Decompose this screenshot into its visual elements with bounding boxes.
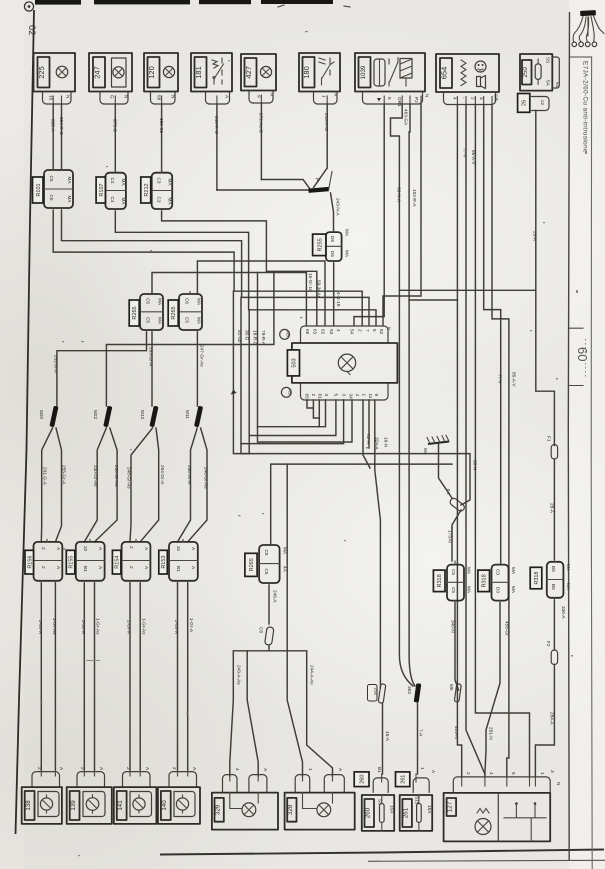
wire 654 pin1 to unit 127 — [466, 105, 485, 777]
svg-text:4-N-18: 4-N-18 — [336, 292, 341, 307]
fuse F2 — [551, 650, 557, 665]
wire 243-N-A — [331, 193, 334, 232]
wire 246-A — [268, 586, 270, 625]
wire node 9 of 503 to splice 292 and fusebox 260 — [375, 400, 381, 688]
wire bus feed lamp 328 — [287, 464, 302, 776]
svg-text:MA: MA — [158, 298, 163, 306]
svg-text:2: 2 — [466, 772, 471, 775]
wire 1039 pin1 to node 54 of unit 503 — [354, 104, 384, 326]
frame right border line — [568, 12, 569, 860]
svg-text:1: 1 — [420, 767, 425, 770]
connector R101 — [44, 167, 73, 211]
svg-text:463-GA: 463-GA — [404, 109, 409, 126]
svg-text:R255: R255 — [317, 238, 323, 251]
connector bracket under 654 — [444, 92, 496, 105]
svg-text:R155: R155 — [69, 556, 75, 569]
svg-text:2: 2 — [358, 329, 363, 332]
wire 30-G — [240, 297, 242, 443]
svg-text:1: 1 — [322, 95, 327, 98]
wire 340-N — [455, 603, 459, 690]
control unit 503 — [292, 326, 398, 400]
svg-text:405-N: 405-N — [454, 726, 459, 739]
svg-text:1-Gr-As: 1-Gr-As — [96, 618, 101, 635]
svg-text:2: 2 — [129, 546, 134, 549]
svg-text:4: 4 — [235, 768, 240, 771]
svg-text:N: N — [171, 95, 176, 98]
plate R255 — [313, 234, 326, 256]
connector R255 — [326, 229, 350, 264]
svg-text:328: 328 — [287, 804, 294, 815]
svg-text:C3: C3 — [496, 569, 501, 575]
wire fan staircase node 3 of 503 — [258, 400, 353, 442]
svg-text:F1: F1 — [547, 436, 552, 442]
wire 82-A node 1 of 503 — [363, 400, 370, 468]
wire bus R107 to node 7 of unit 503 — [115, 212, 376, 326]
svg-text:260: 260 — [365, 807, 372, 818]
svg-text:2-Gr-A: 2-Gr-A — [81, 620, 86, 635]
motor unit 139 — [67, 787, 112, 824]
svg-text:R107: R107 — [99, 183, 105, 196]
svg-text:M22: M22 — [93, 410, 98, 420]
wire 654 pin4 to unit 127 via splice M6 — [457, 105, 461, 777]
svg-text:230-Gr-As: 230-Gr-As — [93, 465, 98, 487]
svg-text:N: N — [387, 327, 392, 330]
wire 336-A — [553, 600, 555, 650]
svg-text:5A: 5A — [546, 80, 551, 87]
svg-text:59-3r-As: 59-3r-As — [317, 280, 322, 299]
wire 247-Gr-As feed splice M11 — [196, 333, 198, 407]
svg-text:02: 02 — [26, 25, 37, 36]
svg-text:C4: C4 — [110, 197, 115, 203]
switch unit 181 — [191, 53, 232, 92]
pin triangle — [377, 98, 381, 102]
svg-text:10A: 10A — [390, 805, 395, 814]
svg-text:C5: C5 — [49, 176, 54, 182]
svg-text:61: 61 — [318, 394, 323, 400]
connector bracket lamp 329 — [223, 775, 267, 793]
svg-text:2: 2 — [471, 97, 476, 100]
svg-text:1: 1 — [362, 394, 367, 397]
connector bracket lamp 328 — [295, 775, 344, 793]
svg-text:MA: MA — [467, 586, 472, 594]
svg-text:127: 127 — [447, 801, 454, 812]
svg-text:4: 4 — [453, 97, 458, 100]
svg-text:138: 138 — [25, 800, 32, 811]
connector R154 — [122, 539, 151, 583]
motor unit 140 — [158, 787, 200, 824]
svg-text:M20: M20 — [39, 410, 44, 420]
svg-text:248-Gr-As: 248-Gr-As — [127, 467, 132, 489]
connector R212 — [152, 170, 173, 212]
wire 254-Gr-A branch — [140, 428, 159, 542]
lamp unit 225 — [34, 53, 76, 92]
lamp unit 127 — [444, 793, 551, 842]
svg-text:272-As-G: 272-As-G — [259, 113, 264, 133]
node A5 upper — [280, 329, 290, 339]
fuse box 250 — [520, 54, 560, 91]
svg-text:427: 427 — [244, 66, 253, 79]
connector bracket under 120 — [151, 92, 176, 105]
svg-text:58: 58 — [157, 95, 162, 101]
svg-text:x2: x2 — [540, 100, 545, 105]
wire R265a top to node 66 of unit 503 — [152, 273, 306, 326]
wire 1-Gr-As motor 139 — [94, 583, 96, 770]
svg-text:D6: D6 — [330, 251, 335, 257]
connector bracket under 247 — [100, 92, 128, 105]
svg-text:250: 250 — [522, 67, 529, 78]
svg-text:53: 53 — [329, 329, 334, 335]
svg-text:139: 139 — [70, 800, 77, 811]
wire 284-A to unit 127 — [535, 665, 554, 777]
splice M6 — [454, 684, 461, 702]
wire 256-Gr-A branch — [178, 428, 198, 542]
svg-text:MA: MA — [467, 567, 472, 575]
svg-text:246-A: 246-A — [273, 590, 278, 603]
wire 244-R-G — [326, 104, 328, 168]
svg-text:65: 65 — [305, 394, 310, 400]
svg-text:C5: C5 — [264, 550, 269, 556]
wire 240-Gr-As branch — [188, 428, 207, 542]
svg-text:MA: MA — [167, 179, 172, 187]
svg-text:19-N: 19-N — [384, 437, 389, 447]
connector R318b — [492, 561, 517, 603]
svg-text:C6: C6 — [49, 195, 54, 201]
svg-text:4A: 4A — [283, 566, 288, 573]
sheet number 60 — [570, 328, 591, 385]
svg-text:1: 1 — [540, 772, 545, 775]
svg-text:140: 140 — [161, 800, 168, 811]
svg-text:S3: S3 — [378, 799, 383, 805]
connector R265b — [179, 292, 202, 333]
svg-text:231-G-A: 231-G-A — [43, 467, 48, 486]
svg-text:54: 54 — [350, 329, 355, 335]
wire 463-GA — [391, 104, 403, 290]
svg-text:R318: R318 — [482, 574, 488, 587]
svg-text:MA: MA — [67, 196, 72, 204]
wire 230-Gr-As branch — [84, 428, 106, 542]
svg-text:R156: R156 — [27, 556, 33, 569]
svg-text:77-V: 77-V — [462, 148, 467, 159]
svg-text:181: 181 — [194, 66, 203, 79]
svg-text:7: 7 — [365, 329, 370, 332]
svg-text:2: 2 — [126, 767, 131, 770]
svg-text:34: 34 — [349, 394, 354, 400]
svg-text:MA: MA — [167, 198, 172, 206]
splice 363 — [414, 683, 422, 703]
svg-text:66: 66 — [305, 329, 310, 335]
svg-text:261: 261 — [402, 807, 409, 818]
svg-text:D6: D6 — [330, 236, 335, 242]
svg-text:120: 120 — [147, 66, 156, 79]
wire 23-A — [536, 111, 555, 446]
svg-text:MA: MA — [511, 567, 516, 575]
svg-text:245-R-G: 245-R-G — [214, 116, 219, 134]
wire 231-G-A branch — [41, 428, 52, 542]
plate R101 — [33, 177, 44, 203]
connector x2 — [531, 97, 549, 111]
plate R153 — [159, 550, 168, 574]
svg-text:C5: C5 — [451, 587, 456, 593]
svg-text:225: 225 — [37, 66, 46, 79]
svg-text:243-A-As: 243-A-As — [237, 665, 242, 685]
svg-text:261: 261 — [401, 775, 407, 784]
wire 1-Gr-As motor 141 — [139, 583, 141, 770]
connector bracket motor 138 — [32, 772, 60, 788]
connector R265a — [140, 292, 163, 333]
pin numbers bottom row of 503 — [305, 394, 380, 400]
svg-text:1039: 1039 — [360, 65, 367, 79]
svg-text:85-A-V: 85-A-V — [471, 150, 476, 165]
svg-text:2: 2 — [311, 394, 316, 397]
svg-text:1: 1 — [308, 768, 313, 771]
fusebox 260 — [362, 795, 395, 831]
svg-text:P2: P2 — [414, 97, 419, 103]
svg-text:MA: MA — [345, 229, 350, 237]
svg-text:79-R-A: 79-R-A — [261, 330, 266, 346]
wire feed splice M20 — [57, 333, 147, 407]
siren unit 654 — [436, 54, 499, 92]
svg-text:340-N: 340-N — [451, 620, 456, 633]
wire 253-Gr-A feed splice M13 — [151, 333, 153, 407]
svg-text:2-Gr-A: 2-Gr-A — [38, 620, 43, 635]
svg-text:1-Gr-As: 1-Gr-As — [142, 618, 147, 635]
svg-text:31: 31 — [176, 546, 181, 552]
svg-text:N: N — [556, 782, 561, 785]
svg-text:R265: R265 — [132, 306, 138, 319]
wire 375-G — [114, 104, 116, 173]
top scanner black dash band — [35, 0, 81, 5]
svg-text:60: 60 — [575, 347, 590, 361]
connector R265c — [259, 543, 287, 586]
svg-text:292: 292 — [374, 688, 379, 696]
connector R155 — [76, 539, 105, 583]
wire bus R101 right to node 2 of unit 503 — [62, 211, 370, 326]
svg-text:11: 11 — [368, 394, 373, 399]
relay unit 1039 — [355, 53, 425, 92]
wire 28-A — [553, 459, 555, 559]
svg-text:S15: S15 — [415, 796, 420, 805]
svg-text:4: 4 — [336, 329, 341, 332]
svg-text:329: 329 — [214, 804, 221, 815]
wire 335-A — [52, 104, 54, 170]
svg-text:89-N-A: 89-N-A — [396, 187, 401, 203]
svg-text:MA: MA — [121, 179, 126, 187]
svg-text:M6: M6 — [449, 684, 454, 691]
svg-text:141: 141 — [117, 800, 124, 811]
plate R154 — [112, 550, 121, 574]
svg-text:A5: A5 — [287, 389, 292, 395]
plate 26 — [518, 94, 530, 113]
svg-text:254-Gr-A: 254-Gr-A — [160, 465, 165, 485]
fuse C8 — [265, 627, 274, 646]
svg-text:152-R-A: 152-R-A — [412, 189, 417, 207]
svg-text:2-Gr-A: 2-Gr-A — [174, 620, 179, 635]
svg-text:5: 5 — [511, 772, 516, 775]
svg-text:2: 2 — [80, 767, 85, 770]
svg-text:GR1: GR1 — [397, 97, 402, 107]
wire bus R212 to node 51 of unit 503 — [162, 212, 317, 326]
wire 81-Sb — [233, 291, 249, 453]
wire 654 pin2 loop to unit 127 — [475, 105, 529, 777]
svg-text:3: 3 — [550, 770, 555, 773]
svg-text:9: 9 — [374, 394, 379, 397]
wire 324-A node 11 of 503 — [368, 400, 370, 448]
svg-text:63: 63 — [313, 329, 318, 335]
svg-text:2: 2 — [41, 566, 46, 569]
svg-text:G: G — [110, 95, 115, 99]
wire R265b top to node 62 of unit 503 — [197, 261, 325, 326]
wire fan staircase node 5 of 503 — [249, 400, 470, 505]
wire 18-R-G — [248, 310, 250, 436]
svg-text:23-A: 23-A — [533, 231, 538, 242]
connector R153 — [169, 539, 198, 583]
wire 248-Gr-As branch — [130, 428, 153, 542]
svg-text:B1: B1 — [377, 767, 382, 773]
switch unit 180 — [299, 53, 340, 92]
svg-text:B5: B5 — [551, 584, 556, 590]
svg-text:R265: R265 — [171, 306, 177, 319]
plate R318b — [478, 570, 490, 592]
wire 152-R-A — [409, 104, 457, 300]
wire 77-V — [484, 105, 501, 565]
plate R107 — [96, 177, 105, 203]
wire 1-Gr-A motor 140 — [187, 583, 189, 770]
plate R318c — [530, 567, 542, 589]
motor unit 138 — [22, 787, 62, 824]
pin numbers top row of 503 — [305, 327, 392, 335]
plate R156 — [25, 550, 34, 574]
connector R318c — [547, 559, 571, 601]
wire bus feed connector R265c — [271, 464, 452, 545]
connector bracket motor 139 — [77, 772, 105, 788]
svg-text:N: N — [66, 95, 71, 98]
wire 2-Gr-A motor 141 — [129, 583, 131, 770]
fuse F1 — [551, 445, 557, 460]
svg-text:180: 180 — [302, 66, 311, 79]
wire 1039 pin GR1 to splice 363 — [399, 290, 413, 686]
svg-text:C3: C3 — [156, 197, 161, 203]
fusebox 261 — [400, 795, 433, 831]
plate 503 — [287, 350, 299, 376]
svg-text:2: 2 — [172, 767, 177, 770]
svg-text:458-Gr: 458-Gr — [505, 621, 510, 636]
wire 243-A-As to lamp 329 — [230, 646, 269, 777]
svg-text:3: 3 — [479, 97, 484, 100]
wire 79-R-A — [257, 273, 259, 427]
svg-text:32: 32 — [83, 546, 88, 552]
svg-text:284-A: 284-A — [550, 712, 555, 725]
connector bracket under 1039 — [363, 92, 423, 105]
lamp unit 328 — [285, 793, 355, 830]
svg-text:B1: B1 — [83, 566, 88, 572]
wire 427 elbow to pointer — [261, 180, 309, 189]
svg-text:B5: B5 — [551, 566, 556, 572]
svg-text:MA: MA — [197, 298, 202, 306]
connector R156 — [34, 539, 65, 583]
connector bracket fusebox 261 — [413, 778, 429, 793]
svg-text:R318: R318 — [534, 572, 540, 585]
svg-text:C3: C3 — [156, 178, 161, 184]
svg-text:255-Gr-A: 255-Gr-A — [62, 465, 67, 485]
connector bracket unit 127 — [453, 777, 550, 793]
wire splice 363 to fusebox 261 — [417, 703, 419, 775]
wire 244-A-As to lamp 328 — [269, 651, 333, 776]
svg-text:1-Gr-A: 1-Gr-A — [189, 618, 194, 633]
wire 1039 pin P2 to splice 363 — [409, 300, 415, 686]
wire 250-Gr-As branch — [95, 428, 118, 542]
svg-text:P: P — [314, 178, 320, 182]
splice M13 — [149, 406, 158, 428]
lamp unit 329 — [212, 793, 278, 830]
svg-text:E7JA-2/60-Cu anti-intrusione: E7JA-2/60-Cu anti-intrusione — [582, 61, 589, 153]
svg-text:336-A: 336-A — [561, 606, 566, 619]
wire 272-As-G — [260, 103, 262, 180]
svg-text:R101: R101 — [36, 183, 42, 196]
svg-text:2-Gr-A: 2-Gr-A — [127, 620, 132, 635]
svg-text:15: 15 — [49, 95, 54, 101]
splice 292 — [378, 684, 386, 704]
svg-text:77-V: 77-V — [498, 374, 503, 385]
connector bracket under 225 — [43, 92, 72, 105]
svg-text:GR: GR — [494, 94, 499, 102]
svg-text:3: 3 — [324, 394, 329, 397]
svg-text:R154: R154 — [115, 556, 121, 569]
svg-text:3: 3 — [342, 394, 347, 397]
svg-text:D3: D3 — [496, 587, 501, 593]
svg-text:9: 9 — [257, 95, 262, 98]
svg-text:260: 260 — [360, 775, 366, 784]
wire 394-R-G — [61, 104, 63, 170]
svg-text:15A: 15A — [427, 805, 432, 814]
svg-text:C5: C5 — [451, 569, 456, 575]
wire R255 to node 4 of unit 503 — [333, 264, 335, 326]
svg-text:4: 4 — [355, 394, 360, 397]
svg-text:28-A: 28-A — [550, 503, 555, 514]
svg-text:243-N-A: 243-N-A — [336, 198, 341, 216]
svg-text:7-A: 7-A — [419, 729, 424, 737]
wire splice 292 to fusebox 260 — [382, 703, 384, 774]
svg-text:N: N — [124, 95, 129, 98]
wire 1039 pin N to node N of unit 503 — [383, 104, 421, 326]
plate 261 — [396, 772, 410, 787]
connector bracket motor 140 — [169, 772, 197, 788]
wire 181 to pointer — [217, 189, 309, 191]
svg-text:5: 5 — [387, 97, 392, 100]
svg-text:244-R-G: 244-R-G — [324, 113, 329, 131]
wire 1-Gr-As motor 138 — [54, 583, 56, 770]
plate R265c — [245, 553, 257, 576]
splice M20 — [49, 406, 58, 428]
corner registration glyph (circle-dot) — [24, 2, 33, 11]
svg-text:R265: R265 — [249, 558, 255, 571]
svg-text:C5: C5 — [146, 317, 151, 323]
svg-text:C8: C8 — [259, 627, 264, 633]
svg-text:R318: R318 — [437, 574, 443, 587]
motor unit 141 — [114, 787, 157, 824]
svg-text:4: 4 — [489, 772, 494, 775]
svg-text:244-A-As: 244-A-As — [310, 665, 315, 685]
wire junction to lamp 329 pin A — [247, 651, 258, 776]
svg-text:2: 2 — [129, 566, 134, 569]
svg-text:503: 503 — [292, 358, 298, 367]
ground M4 — [423, 435, 452, 498]
plate R265b — [168, 300, 178, 326]
svg-text:C5: C5 — [146, 298, 151, 304]
svg-text:2: 2 — [37, 767, 42, 770]
svg-text:98-N: 98-N — [473, 460, 478, 470]
svg-text:394-R-G: 394-R-G — [59, 117, 64, 135]
wire 2-Gr-A motor 140 — [177, 583, 179, 770]
